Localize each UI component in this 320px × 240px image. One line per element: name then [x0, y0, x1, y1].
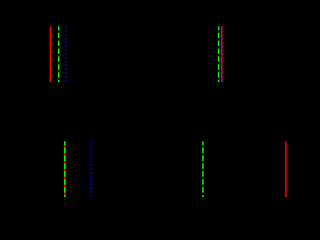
subplot 4 (bottom-right): red solid vline: [285, 141, 287, 197]
subplot 2 (top-right): red solid vline: [221, 26, 223, 82]
subplot 3 (bottom-left): green dashed vline (overlapping red): [64, 141, 66, 197]
subplot 3 (bottom-left): red solid vline: [64, 141, 66, 197]
subplot 2 (top-right): blue dotted vline: [222, 26, 224, 82]
subplot 2 (top-right): green dashed vline: [218, 26, 220, 82]
subplot 1 (top-left): green dashed vline: [58, 26, 60, 82]
subplot 3 (bottom-left): blue dotted vline: [90, 141, 92, 197]
subplot 1 (top-left): red solid vline: [50, 26, 52, 82]
subplot 1 (top-left): blue dotted vline: [65, 26, 67, 82]
subplot 4 (bottom-right): green dashed vline: [202, 141, 204, 197]
